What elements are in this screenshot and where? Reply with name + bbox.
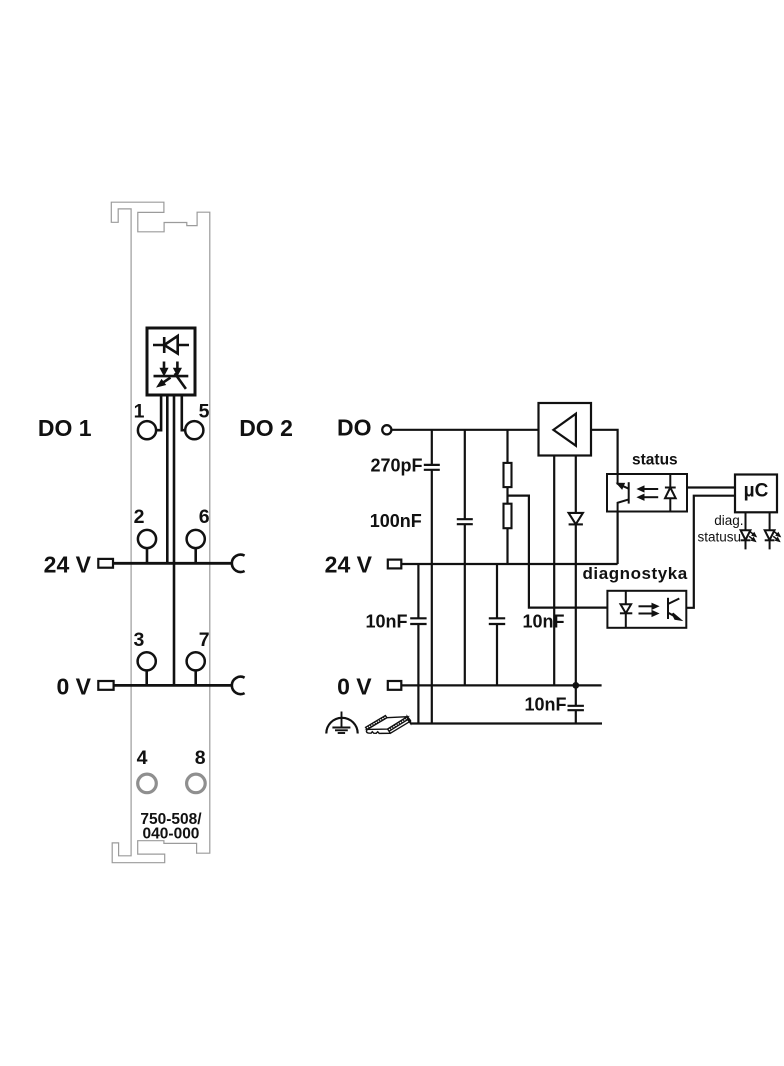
capacitor C5 10nF plates bottom <box>568 706 584 710</box>
contact 7 <box>187 652 205 685</box>
DIN rail symbol <box>366 716 411 734</box>
capacitor C2 100nF plates <box>457 519 473 524</box>
resistor R1 <box>504 463 512 487</box>
svg-text:6: 6 <box>199 506 210 528</box>
optocoupler diagnostyka box <box>607 591 686 628</box>
svg-text:DO: DO <box>337 415 372 441</box>
jumper contact hook 0V <box>232 677 245 694</box>
svg-text:040-000: 040-000 <box>143 826 200 843</box>
module outline 750 series housing <box>111 202 210 863</box>
24V rail module <box>113 562 232 565</box>
contact 8 LED <box>187 774 206 793</box>
svg-text:100nF: 100nF <box>370 511 422 531</box>
uC LED pin status <box>765 512 775 549</box>
contact 1 <box>138 421 156 439</box>
SCHEMATIC-RIGHT <box>325 403 781 734</box>
LED light emission arrows diag <box>749 531 757 541</box>
LED light emission arrows status <box>773 531 781 541</box>
diagnostyka phototransistor <box>668 598 680 620</box>
wire from LED block to 24V rail <box>166 394 169 563</box>
svg-text:24 V: 24 V <box>325 551 373 577</box>
LED block U10 <box>147 328 195 395</box>
wire status to uC <box>687 486 735 488</box>
wire uC to diagnostyka <box>686 496 735 608</box>
contact 6 <box>187 530 205 563</box>
terminal square 24V schematic <box>388 560 402 569</box>
0V rail schematic <box>401 684 601 686</box>
diode D1 <box>569 513 583 525</box>
24V rail schematic <box>401 563 617 565</box>
MODULE-LEFT <box>38 202 293 863</box>
wire from LED block to contact 1 <box>156 394 161 430</box>
status light arrows <box>638 486 659 500</box>
optocoupler status box <box>607 474 687 512</box>
contact 4 LED <box>138 774 157 793</box>
svg-text:diag.: diag. <box>714 513 743 528</box>
svg-text:diagnostyka: diagnostyka <box>583 564 688 583</box>
terminal square 0V module <box>98 681 113 690</box>
terminal square 0V schematic <box>388 681 402 690</box>
svg-text:10nF: 10nF <box>524 695 566 715</box>
svg-text:24 V: 24 V <box>44 551 92 577</box>
driver op-amp U1 box <box>539 403 592 456</box>
svg-text:270pF: 270pF <box>370 455 422 475</box>
svg-text:10nF: 10nF <box>365 612 407 632</box>
wire from LED block to contact 5 <box>182 394 186 430</box>
svg-text:1: 1 <box>134 401 145 423</box>
status phototransistor <box>617 474 629 512</box>
terminal DO open circle <box>382 425 391 434</box>
svg-text:µC: µC <box>744 481 769 502</box>
wire U1 pin to 0V rail <box>553 456 555 686</box>
contact 3 <box>138 652 156 685</box>
svg-text:0 V: 0 V <box>56 673 91 699</box>
capacitor C4 10nF plates <box>489 618 505 624</box>
svg-text:8: 8 <box>195 747 206 769</box>
svg-text:DO 1: DO 1 <box>38 415 92 441</box>
ground symbol <box>326 712 357 734</box>
jumper contact hook 24V <box>232 555 245 572</box>
driver U1 triangle <box>553 414 576 446</box>
wire resistor chain <box>506 430 508 564</box>
diagnostyka LED <box>620 591 632 628</box>
diode D10 in LED block <box>153 336 189 354</box>
diagnostyka light arrows <box>639 603 659 616</box>
wire capacitor C1 branch <box>431 430 433 724</box>
svg-text:2: 2 <box>134 506 145 528</box>
resistor R2 <box>504 504 512 529</box>
junction node on 0V rail <box>572 682 579 689</box>
wire capacitor C2 branch <box>464 430 466 686</box>
svg-text:3: 3 <box>134 629 145 651</box>
wire capacitor C3 branch <box>417 564 419 724</box>
capacitor C1 270pF plates <box>424 465 440 470</box>
svg-text:statusu: statusu <box>697 529 741 544</box>
wire U1 pin with diode D1 <box>575 456 577 724</box>
terminal square 24V module <box>98 559 113 568</box>
0V rail module <box>114 684 232 687</box>
capacitor C3 10nF plates <box>410 618 426 624</box>
ground rail <box>411 722 603 724</box>
wire capacitor C4 branch <box>496 564 498 685</box>
contact 2 <box>138 530 156 563</box>
svg-text:0 V: 0 V <box>337 673 372 699</box>
svg-text:status: status <box>632 451 678 468</box>
svg-text:4: 4 <box>137 747 148 769</box>
wire status emitter to 24V rail <box>616 512 618 565</box>
uC LED pin diag <box>741 512 751 549</box>
svg-text:5: 5 <box>199 401 210 423</box>
wire tap to diagnostyka LED <box>508 496 608 608</box>
status LED <box>665 474 676 512</box>
wire from LED block to 0V rail <box>173 394 176 685</box>
wire DO to driver U1 <box>391 429 538 431</box>
wire U1 output to node A <box>591 430 618 474</box>
suppressor D11 in LED block <box>154 362 189 389</box>
svg-text:DO 2: DO 2 <box>239 415 293 441</box>
svg-text:10nF: 10nF <box>523 612 565 632</box>
svg-text:7: 7 <box>199 629 210 651</box>
contact 5 <box>185 421 203 439</box>
uC box <box>735 475 777 513</box>
